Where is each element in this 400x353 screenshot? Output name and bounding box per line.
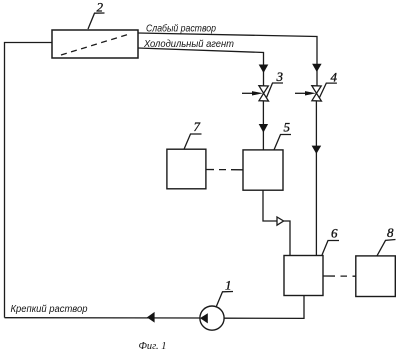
arrow into evaporator 5 bbox=[259, 124, 268, 133]
leader line label 3 bbox=[267, 83, 284, 98]
arrow on refrigerant line bbox=[259, 65, 269, 74]
leader line label 8 bbox=[377, 240, 396, 256]
evaporator 5 bbox=[243, 150, 283, 190]
wire valve 3 to evaporator 5 bbox=[262, 101, 264, 150]
leader line label 1 bbox=[216, 292, 233, 308]
leader line label 2 bbox=[88, 13, 105, 29]
chamber 8 bbox=[356, 256, 396, 297]
leader line label 6 bbox=[322, 241, 339, 256]
wire evaporator 5 to absorber 6 bbox=[263, 190, 277, 221]
wire valve 4 to absorber 6 bbox=[315, 101, 317, 256]
open arrow on vapour line bbox=[277, 217, 284, 225]
arrow on weak-solution line bbox=[312, 64, 322, 72]
chamber 7 bbox=[167, 149, 206, 189]
leader line label 5 bbox=[274, 135, 291, 150]
leader line label 7 bbox=[184, 134, 202, 149]
valve 3 actuator arrow bbox=[242, 92, 253, 94]
svg-text:4: 4 bbox=[331, 69, 338, 84]
svg-text:1: 1 bbox=[225, 277, 232, 292]
wire refrigerant line to valve 3 bbox=[138, 48, 264, 86]
wire left return loop bbox=[5, 43, 53, 318]
arrow on line into absorber 6 bbox=[312, 146, 322, 154]
svg-text:6: 6 bbox=[331, 226, 338, 241]
svg-text:8: 8 bbox=[387, 225, 394, 240]
svg-text:Фиг. 1: Фиг. 1 bbox=[139, 340, 167, 352]
vessel 2 (generator) bbox=[52, 30, 138, 58]
wire weak-solution line to valve 4 bbox=[138, 33, 317, 86]
dashed link 6 to 8 bbox=[323, 275, 356, 277]
svg-text:Крепкий раствор: Крепкий раствор bbox=[11, 304, 88, 315]
svg-text:5: 5 bbox=[284, 120, 291, 135]
wire into absorber 6 top bbox=[284, 221, 290, 256]
svg-text:3: 3 bbox=[276, 69, 284, 84]
arrow strong-solution flow bbox=[147, 312, 155, 323]
svg-text:Холодильный агент: Холодильный агент bbox=[143, 39, 234, 50]
absorber 6 bbox=[284, 256, 323, 296]
svg-text:2: 2 bbox=[97, 0, 104, 15]
valve 4 (throttle) bbox=[312, 86, 322, 101]
dashed heat-exchange divider inside vessel 2 bbox=[61, 34, 131, 56]
wire absorber 6 to pump 1 bbox=[224, 296, 304, 319]
pump 1 circle bbox=[200, 306, 224, 330]
pump 1 impeller arrow bbox=[200, 313, 208, 323]
svg-text:Слабый раствор: Слабый раствор bbox=[146, 23, 216, 35]
wire pump to left loop bbox=[5, 317, 200, 319]
valve 3 (throttle) bbox=[259, 86, 269, 101]
svg-text:7: 7 bbox=[194, 119, 201, 134]
leader line label 4 bbox=[320, 83, 337, 97]
dashed link 7 to 5 bbox=[206, 169, 243, 171]
valve 4 actuator arrow bbox=[295, 92, 306, 94]
